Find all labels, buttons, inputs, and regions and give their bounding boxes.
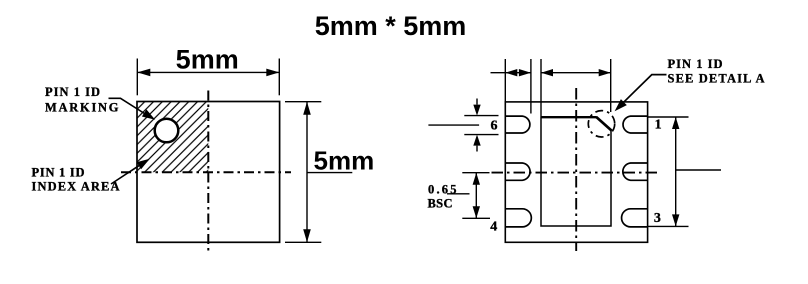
- svg-text:5mm: 5mm: [314, 145, 375, 175]
- svg-text:PIN 1 ID: PIN 1 ID: [45, 85, 100, 99]
- svg-text:INDEX AREA: INDEX AREA: [32, 180, 120, 194]
- svg-text:1: 1: [655, 118, 662, 133]
- svg-text:0.65: 0.65: [428, 182, 457, 196]
- svg-text:PIN 1 ID: PIN 1 ID: [32, 165, 85, 179]
- svg-text:5mm * 5mm: 5mm * 5mm: [315, 11, 467, 41]
- svg-text:3: 3: [654, 211, 661, 226]
- svg-text:BSC: BSC: [428, 196, 453, 210]
- svg-text:6: 6: [491, 119, 498, 134]
- svg-text:PIN 1 ID: PIN 1 ID: [668, 57, 723, 71]
- svg-text:4: 4: [490, 219, 497, 234]
- svg-text:5mm: 5mm: [176, 44, 239, 74]
- svg-text:SEE DETAIL A: SEE DETAIL A: [668, 72, 765, 86]
